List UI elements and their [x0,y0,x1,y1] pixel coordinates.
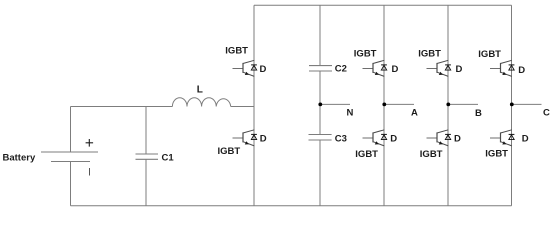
transistor: IGBT bottom of leg B [427,130,451,146]
wire: bottom DC rail [71,205,512,207]
svg-text:C3: C3 [335,133,347,144]
transistor: IGBT top of leg C [490,60,514,76]
svg-text:D: D [260,134,267,145]
node N: junction dot and stub [318,103,350,107]
transistor: IGBT top of leg B [427,60,451,76]
wire: inductor output to first leg [231,106,254,108]
transistor: IGBT bottom of leg 1 [233,130,257,146]
battery BT1 [41,107,98,206]
node C: junction dot and stub [510,103,542,107]
svg-text:D: D [456,64,463,75]
svg-text:D: D [522,134,529,145]
wire: input bus from battery to first leg [71,106,173,108]
svg-text:IGBT: IGBT [478,49,501,60]
capacitor C3 [309,135,332,141]
capacitor C1 [136,107,159,206]
transistor: IGBT top of leg 1 [233,60,257,76]
svg-text:Battery: Battery [3,153,36,164]
node A: junction dot and stub [382,103,414,107]
transistor: IGBT bottom of leg C [490,130,514,146]
transistor: IGBT bottom of leg A [363,130,387,146]
wire: leg C vertical [511,5,513,206]
svg-text:A: A [411,108,418,119]
svg-text:IGBT: IGBT [225,46,248,57]
svg-text:D: D [390,134,397,145]
svg-text:IGBT: IGBT [355,149,378,160]
svg-text:B: B [475,108,482,119]
svg-text:N: N [347,108,354,119]
svg-text:IGBT: IGBT [420,149,443,160]
wire: top DC rail [254,4,512,6]
wire: leg A vertical [383,5,385,206]
svg-text:C1: C1 [162,153,175,164]
wire: leg B vertical [447,5,449,206]
svg-text:C2: C2 [335,64,347,75]
capacitor C2 [309,66,332,71]
inductor L [172,98,230,107]
wire: leg 1 vertical (boost half-bridge) [253,5,255,206]
svg-text:L: L [197,84,203,95]
wire: capacitor leg vertical segments [319,5,321,206]
svg-text:D: D [260,64,267,75]
svg-text:IGBT: IGBT [485,149,508,160]
svg-text:C: C [543,107,550,118]
svg-text:D: D [518,65,525,76]
transistor: IGBT top of leg A [363,60,387,76]
svg-text:IGBT: IGBT [218,146,241,157]
node B: junction dot and stub [446,103,478,107]
svg-text:D: D [454,134,461,145]
svg-text:IGBT: IGBT [354,48,377,59]
svg-text:IGBT: IGBT [418,48,441,59]
svg-text:D: D [392,64,399,75]
